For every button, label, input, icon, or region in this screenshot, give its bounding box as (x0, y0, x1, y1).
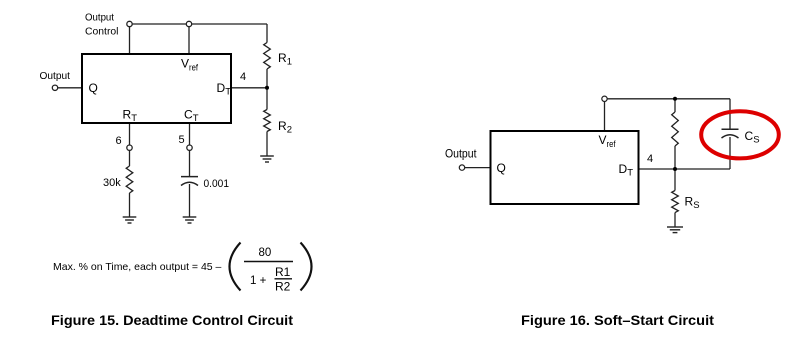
svg-text:S: S (693, 200, 699, 211)
svg-text:R: R (123, 108, 132, 122)
svg-text:Figure 16. Soft–Start Circuit: Figure 16. Soft–Start Circuit (521, 313, 715, 328)
svg-text:T: T (193, 113, 199, 124)
svg-text:R2: R2 (275, 280, 291, 294)
svg-text:R: R (278, 119, 287, 133)
svg-text:Q: Q (497, 161, 506, 175)
svg-text:R1: R1 (275, 265, 291, 279)
svg-text:S: S (753, 135, 759, 146)
svg-text:Output: Output (40, 70, 71, 82)
svg-text:ref: ref (189, 63, 198, 74)
svg-text:V: V (181, 57, 189, 71)
svg-text:0.001: 0.001 (204, 178, 230, 190)
svg-text:Output: Output (445, 147, 477, 161)
svg-text:30k: 30k (103, 177, 121, 189)
svg-text:V: V (599, 133, 607, 147)
svg-text:1: 1 (287, 57, 292, 68)
svg-text:D: D (619, 162, 628, 176)
svg-text:2: 2 (287, 125, 292, 136)
svg-text:T: T (225, 87, 231, 98)
svg-text:T: T (131, 113, 137, 124)
svg-text:1 +: 1 + (250, 275, 267, 287)
svg-text:80: 80 (259, 247, 272, 259)
svg-text:Control: Control (85, 26, 119, 38)
svg-text:4: 4 (647, 153, 653, 165)
svg-text:Max. % on Time, each output =: Max. % on Time, each output = 45 – (53, 261, 222, 273)
svg-text:D: D (217, 81, 226, 95)
svg-text:Output: Output (85, 12, 114, 24)
svg-text:C: C (184, 108, 193, 122)
svg-text:5: 5 (179, 134, 185, 146)
svg-text:T: T (627, 168, 633, 179)
svg-text:Figure 15. Deadtime Control Ci: Figure 15. Deadtime Control Circuit (51, 313, 294, 328)
svg-text:6: 6 (116, 135, 122, 147)
svg-text:C: C (745, 129, 754, 143)
svg-text:4: 4 (240, 71, 246, 83)
svg-text:Q: Q (89, 81, 98, 95)
svg-text:R: R (278, 51, 287, 65)
svg-text:R: R (685, 195, 694, 209)
svg-text:ref: ref (607, 139, 616, 150)
